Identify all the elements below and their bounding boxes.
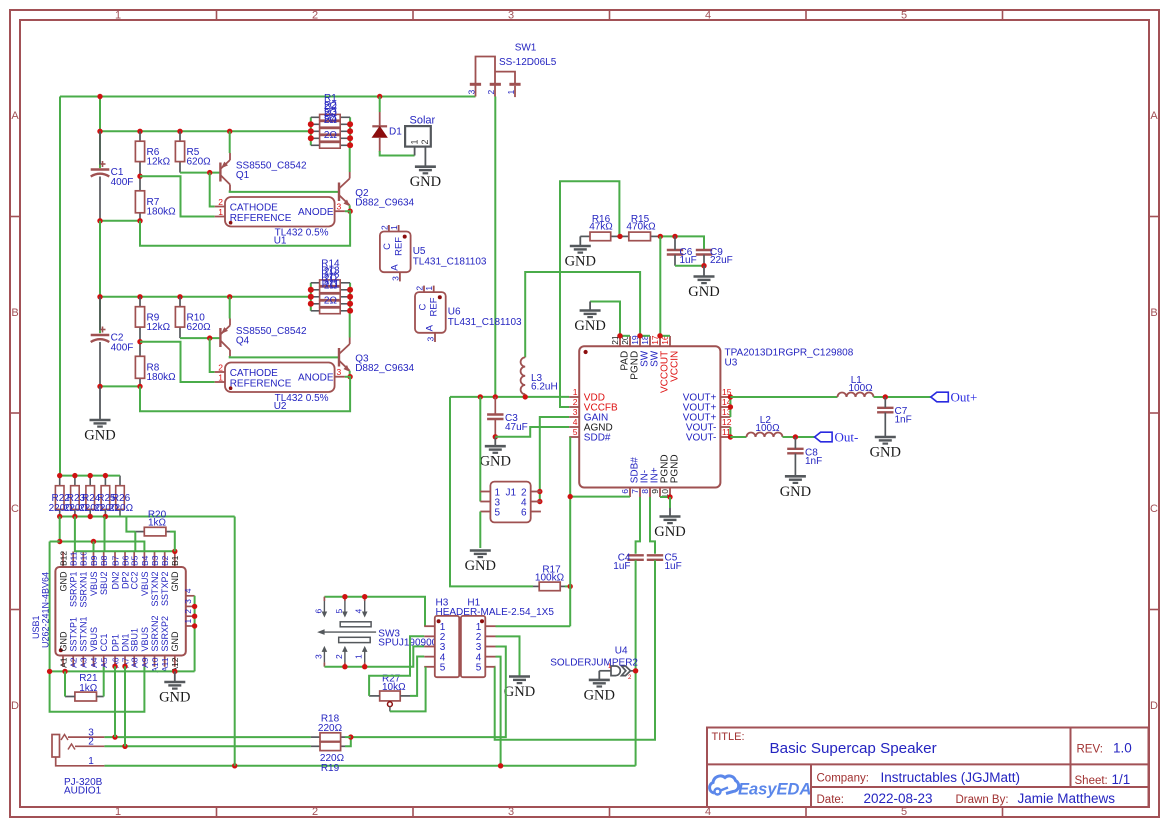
svg-text:8: 8 [640,489,650,494]
svg-text:A8: A8 [130,657,140,668]
junction [728,434,733,439]
svg-text:4: 4 [354,609,364,614]
svg-text:3: 3 [425,337,435,342]
junction [172,669,177,674]
inductor L1 [838,393,874,398]
svg-text:GND: GND [565,254,596,270]
junction [523,394,528,399]
svg-text:2Ω: 2Ω [324,280,338,291]
wire tie VCCOUT-VCCIN [660,335,670,337]
junction [137,129,142,134]
junction [667,494,672,499]
svg-text:EasyEDA: EasyEDA [738,781,811,799]
wire H1 pin5 down [494,666,497,668]
wire bank to audio common [234,517,236,766]
wire to H1 pin1 [496,625,571,627]
wire tie PGND pins [660,496,670,498]
junction [177,294,182,299]
svg-text:5: 5 [901,10,907,22]
svg-text:ANODE: ANODE [298,207,334,218]
svg-text:Date:: Date: [817,794,845,806]
svg-text:5: 5 [334,609,344,614]
wire L2 to Out- [783,436,815,438]
wire bank bottom rail [60,516,235,518]
svg-text:J1: J1 [506,488,517,499]
svg-text:3: 3 [508,806,514,818]
ground below C8 [785,475,806,478]
svg-text:1: 1 [115,806,121,818]
svg-text:1: 1 [506,90,516,95]
svg-text:U5: U5 [413,246,426,257]
svg-text:3: 3 [313,654,323,659]
svg-text:2Ω: 2Ω [324,295,338,306]
svg-text:1kΩ: 1kΩ [148,518,167,529]
switch SW3 [324,597,425,627]
junction [637,333,642,338]
junction [97,384,102,389]
wire SW3 bottom rail [324,646,424,666]
junction [137,294,142,299]
svg-text:3: 3 [467,90,477,95]
resistor R17 [533,585,539,587]
svg-text:400F: 400F [111,177,134,188]
wire R27 left to H3 pin2 [369,636,424,696]
svg-text:U4: U4 [615,646,628,657]
svg-text:4: 4 [183,588,193,593]
svg-text:DP1: DP1 [110,634,120,652]
junction [137,218,142,223]
resistor bank R14 R13 R12 R11 [310,283,312,311]
svg-text:100kΩ: 100kΩ [535,572,565,583]
junction [103,514,108,519]
svg-text:6: 6 [313,609,323,614]
svg-text:Solar: Solar [410,115,436,127]
svg-text:3: 3 [337,202,342,212]
svg-text:1: 1 [115,10,121,22]
wire PAD-PGND to ground [590,302,620,336]
wire shield pins down [194,596,196,672]
wire VDD to R17 branch [450,397,533,587]
junction [633,668,638,673]
wire VOUT+ to L1 [730,396,837,398]
svg-text:AUDIO1: AUDIO1 [64,786,102,797]
junction [112,734,117,739]
svg-text:B2: B2 [160,555,170,566]
wire U2 cathode [210,338,215,372]
wire SDD-SDB vertical [569,437,571,626]
svg-text:GND: GND [58,631,68,652]
svg-text:VOUT-: VOUT- [686,433,717,444]
resistor bank R22-R26 [59,476,61,486]
wire H1 pin3 to audio mix [351,647,506,738]
junction [62,669,67,674]
svg-text:C: C [11,503,19,515]
svg-text:C: C [417,303,428,310]
wire IN- to C4 [636,497,640,554]
resistor R16 [580,235,590,237]
junction [478,394,483,399]
junction [348,734,353,739]
wire B1 drop [174,550,176,552]
junction [493,434,498,439]
svg-text:1/1: 1/1 [1112,772,1131,787]
svg-text:Drawn By:: Drawn By: [956,794,1009,806]
svg-text:1: 1 [424,286,434,291]
svg-text:Jamie Matthews: Jamie Matthews [1018,791,1116,806]
resistor R15 [620,235,629,237]
wire U2 anode loop [140,377,350,412]
resistor R8 [139,342,141,357]
svg-text:Out+: Out+ [951,390,978,405]
wire C2 bottom rail [100,385,140,387]
svg-text:47uF: 47uF [505,422,528,433]
svg-text:3: 3 [337,367,342,377]
capacitor C1 [91,168,110,170]
svg-text:GND: GND [170,571,180,592]
svg-text:SSTXN1: SSTXN1 [79,616,89,651]
svg-text:TL431_C181103: TL431_C181103 [448,317,522,328]
transistor Q3 [338,348,340,367]
svg-text:6: 6 [620,489,630,494]
connector USB1 [55,567,185,656]
wire PGND to ground [669,497,671,508]
wire tie PAD-PGND [620,335,630,337]
svg-text:GND: GND [159,690,190,706]
svg-text:2022-08-23: 2022-08-23 [864,791,933,806]
svg-text:A1: A1 [58,657,68,668]
junction [347,143,352,148]
svg-text:D882_C9634: D882_C9634 [355,363,414,374]
wire upper divider rail [100,130,311,132]
wire R15 to caps rail [658,236,704,249]
svg-text:A5: A5 [99,657,109,668]
svg-text:Q4: Q4 [236,336,250,347]
svg-text:1.0: 1.0 [1113,741,1132,756]
junction [232,763,237,768]
svg-text:SW1: SW1 [515,43,537,54]
svg-text:Instructables (JGJMatt): Instructables (JGJMatt) [881,770,1021,785]
svg-text:620Ω: 620Ω [187,322,212,333]
junction [728,394,733,399]
svg-text:10kΩ: 10kΩ [382,682,406,693]
svg-text:D: D [11,700,19,712]
svg-text:GND: GND [58,571,68,592]
ground at PAD [589,302,591,311]
inductor L3 [521,357,526,394]
capacitor C2 [91,334,110,336]
svg-text:USB1: USB1 [31,615,41,639]
wire bank top rail [60,475,120,477]
svg-text:VBUS: VBUS [140,627,150,652]
svg-text:1: 1 [354,654,364,659]
junction [122,664,127,669]
svg-text:SSTXP2: SSTXP2 [160,572,170,607]
wire caps bottom rail [675,265,704,267]
svg-text:B11: B11 [69,551,79,566]
wire Q3 emitter to U2 anode [349,371,351,377]
wire tie SW-SW [640,335,650,337]
svg-text:B7: B7 [110,555,120,566]
wire Q2 emitter to U1 anode [349,205,351,211]
wire R27 wiper to H3 pin5 [390,667,426,712]
svg-text:Company:: Company: [817,773,869,785]
wire J1 pin5 to ground [479,512,481,549]
svg-text:3: 3 [390,276,400,281]
svg-text:TL431_C181103: TL431_C181103 [413,257,487,268]
inductor L2 [747,433,783,438]
svg-text:Out-: Out- [835,430,859,445]
junction [617,234,622,239]
resistor R27 potentiometer [380,691,401,701]
junction [728,404,733,409]
wire drop to B8 [104,517,106,552]
svg-text:CC1: CC1 [99,633,109,651]
svg-text:REF: REF [394,237,405,256]
wire net B4 left vertical [50,542,145,712]
wire DP1 to audio [114,666,116,737]
svg-text:GND: GND [465,558,496,574]
ground below C9 [703,266,705,277]
svg-text:VCCIN: VCCIN [669,351,680,382]
wire tie VOUT+ pins [729,397,731,417]
wire vertical supercap branch [99,97,101,169]
ground below U3 [669,508,671,517]
solar connector [405,126,431,147]
junction [342,664,347,669]
junction [97,94,102,99]
wire VOUT- to L2 [730,436,746,438]
svg-text:A: A [11,110,19,122]
svg-text:400F: 400F [111,342,134,353]
svg-text:470kΩ: 470kΩ [626,222,656,233]
capacitor C9 [696,249,712,251]
wire R19 join [345,737,351,746]
svg-text:180kΩ: 180kΩ [147,207,177,218]
junction [47,669,52,674]
junction [57,514,62,519]
svg-text:12: 12 [722,417,732,427]
ground below C2 [99,386,101,420]
junction [97,129,102,134]
wire R20 left to B5 [134,532,136,552]
transistor Q1 [219,163,221,182]
svg-text:REV:: REV: [1077,744,1103,756]
wire C4 down [635,560,637,766]
wire rail to VCCOUT pin [659,236,661,335]
wire lower divider rail [100,296,311,298]
svg-text:2: 2 [218,197,223,207]
junction [122,744,127,749]
svg-text:2: 2 [88,737,94,748]
svg-text:2Ω: 2Ω [324,115,338,126]
svg-text:4: 4 [573,417,578,427]
svg-text:VBUS: VBUS [140,572,150,597]
wire C5 to H1 pin5 [495,560,655,740]
junction [192,623,197,628]
svg-text:SBU2: SBU2 [99,572,109,596]
wire rail to R20 [126,517,135,532]
svg-text:3: 3 [573,407,578,417]
svg-text:SSRXN1: SSRXN1 [79,572,89,608]
svg-text:1nF: 1nF [805,456,822,467]
svg-text:GND: GND [84,428,115,444]
svg-text:1: 1 [389,225,399,230]
svg-text:100Ω: 100Ω [849,383,874,394]
junction [192,614,197,619]
svg-text:SSTXN2: SSTXN2 [150,572,160,607]
wire Q4 base [180,337,220,339]
svg-text:SDD#: SDD# [584,433,611,444]
svg-text:5: 5 [476,663,482,674]
wire DN1 to audio [124,666,126,746]
svg-text:3: 3 [508,10,514,22]
svg-text:CATHODE: CATHODE [230,202,278,213]
svg-text:SBU1: SBU1 [130,628,140,652]
svg-text:HEADER-MALE-2.54_1X5: HEADER-MALE-2.54_1X5 [436,607,555,618]
svg-text:7: 7 [630,489,640,494]
svg-text:2: 2 [312,806,318,818]
svg-text:2: 2 [218,362,223,372]
junction [57,539,62,544]
wire R21 left up [64,671,66,696]
svg-text:GND: GND [584,687,615,703]
svg-text:TPA2013D1RGPR_C129808: TPA2013D1RGPR_C129808 [725,348,854,359]
junction [362,664,367,669]
svg-text:9: 9 [650,489,660,494]
svg-text:GND: GND [410,174,441,190]
junction [498,763,503,768]
op-amp U1 TL432 box [225,197,335,227]
junction [362,594,367,599]
ground below C7 [875,436,896,439]
svg-text:1: 1 [573,387,578,397]
connector J1 [490,482,530,523]
svg-text:GND: GND [870,445,901,461]
junction [568,494,573,499]
junction [137,339,142,344]
junction [137,174,142,179]
svg-text:12kΩ: 12kΩ [147,157,171,168]
svg-text:6.2uH: 6.2uH [531,382,558,393]
wire to B1 [75,517,175,552]
junction [658,234,663,239]
wire R21 right to CC1 [103,667,105,697]
svg-text:Sheet:: Sheet: [1075,775,1108,787]
wire SW node [525,272,640,357]
svg-text:1: 1 [183,619,193,624]
svg-text:6: 6 [521,508,527,519]
wire L1 to Out+ [874,396,931,398]
node Out+ port [931,392,949,402]
svg-text:D: D [1150,700,1158,712]
wire VDD to J1 pin1 [479,397,481,502]
resistor R21 [75,692,97,701]
svg-text:DN2: DN2 [110,572,120,590]
svg-text:Q1: Q1 [236,170,250,181]
junction [347,308,352,313]
svg-text:2: 2 [379,225,389,230]
transistor Q2 [338,183,340,202]
svg-text:ANODE: ANODE [298,373,334,384]
wire C1-C2 link [99,221,101,333]
transistor Q4 [219,328,221,347]
svg-text:A: A [425,324,436,331]
svg-text:3: 3 [183,599,193,604]
connector H3 [435,616,459,677]
junction [192,604,197,609]
connector H1 [461,616,485,677]
junction [342,594,347,599]
junction [57,473,62,478]
wire R20 right to B1 [170,532,175,552]
svg-text:REF: REF [429,297,440,316]
wire A-row ground rail [50,670,195,672]
svg-text:GND: GND [688,284,719,300]
junction [657,333,662,338]
svg-text:100Ω: 100Ω [755,423,780,434]
wire GAIN to J1 [540,417,569,502]
svg-text:220Ω: 220Ω [318,723,343,734]
junction [377,94,382,99]
capacitor C7 [877,407,893,409]
wire IN+ to C5 [650,497,655,554]
junction [88,473,93,478]
svg-text:CC2: CC2 [130,572,140,590]
resistor R6 [139,131,141,141]
svg-text:1: 1 [88,756,94,767]
svg-text:C: C [1150,503,1158,515]
junction [617,333,622,338]
resistor bank R1 R2 R3 R4 [310,117,312,145]
svg-text:GND: GND [504,684,535,700]
wire main V+ rail [60,96,476,98]
wire left vertical to resistor bank [59,97,61,476]
svg-text:SSRXP2: SSRXP2 [160,616,170,652]
svg-text:TITLE:: TITLE: [712,731,745,743]
junction [97,294,102,299]
svg-text:1: 1 [218,373,223,383]
wire Q2 collector up [349,145,351,172]
wire VDD net [450,396,569,398]
svg-text:B4: B4 [140,555,150,566]
junction [177,129,182,134]
svg-text:2: 2 [573,397,578,407]
wire H1 pin2 to ground [496,636,520,676]
junction [72,514,77,519]
wire AGND to C3 ground [495,427,569,437]
svg-text:A2: A2 [69,657,79,668]
svg-text:U6: U6 [448,307,461,318]
op-amp U2 TL432 box [225,363,335,393]
U3 bottom pins 6-10 [629,488,631,498]
svg-text:A11: A11 [160,657,170,672]
svg-text:2Ω: 2Ω [324,130,338,141]
svg-text:2: 2 [334,654,344,659]
svg-text:A: A [1150,110,1158,122]
wire audio ring [104,745,310,747]
svg-text:5: 5 [440,663,446,674]
svg-text:GND: GND [480,454,511,470]
connector AUDIO1 PJ-320B [52,735,60,758]
wire Q1 collector to Q2 base [230,191,339,192]
resistor R9 [139,297,141,307]
wire C1 bottom rail [100,220,140,222]
svg-text:C: C [382,243,393,250]
resistor R7 [139,176,141,191]
U3 left pins 1-5 [569,396,579,398]
junction [568,584,573,589]
svg-text:Basic Supercap Speaker: Basic Supercap Speaker [770,740,937,757]
